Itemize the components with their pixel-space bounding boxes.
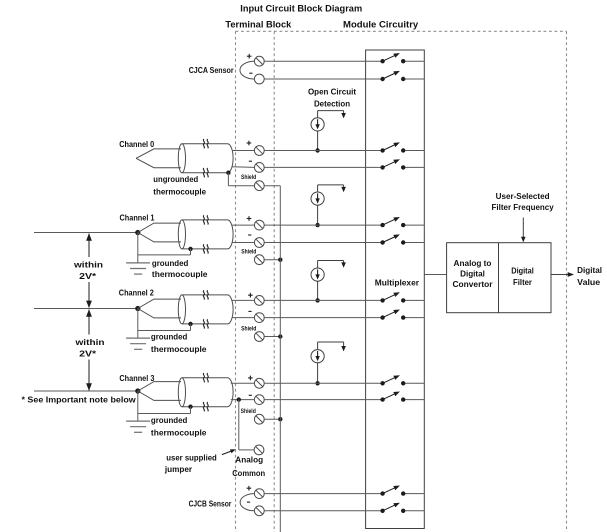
svg-text:Multiplexer: Multiplexer — [375, 279, 419, 288]
channel 1 plus sign — [247, 216, 252, 221]
ground channel 2 — [126, 338, 150, 349]
channel 2 minus sign — [248, 310, 251, 312]
node TC0 shield tap — [226, 171, 230, 175]
svg-text:Analog to: Analog to — [454, 259, 492, 268]
switch S5 (CH1+) with wire — [264, 217, 424, 227]
node CH2 shield bus junction — [278, 334, 282, 338]
wire channel 2 ground stem — [137, 309, 139, 339]
switch S1 (CJCA+) with wire — [264, 53, 424, 63]
shield label ch2 — [241, 327, 256, 333]
node TC2 ground tap — [188, 322, 192, 326]
node CH3 shield bus junction — [278, 417, 282, 421]
ground channel 1 — [126, 263, 150, 274]
svg-text:ungrounded: ungrounded — [153, 175, 198, 184]
wire TC3 ground tap — [138, 407, 191, 414]
terminal CH1+ — [254, 220, 264, 230]
svg-text:Channel 3: Channel 3 — [119, 374, 155, 383]
multiplexer U1 box — [366, 50, 425, 529]
user-selected filter frequency label — [492, 192, 555, 212]
wire TC2 ground tap — [138, 324, 191, 331]
svg-text:Analog: Analog — [235, 456, 263, 465]
node channel 1 junction — [135, 230, 140, 235]
terminal CH2- — [254, 313, 264, 323]
node channel 2 junction — [135, 306, 140, 311]
CJCB minus sign — [247, 501, 250, 503]
terminal CJCA+ — [254, 56, 264, 66]
terminal CJCA- — [254, 74, 264, 84]
wire channel 1 input — [34, 232, 138, 234]
terminal CH2+ — [254, 296, 264, 306]
channel 2 label — [119, 289, 155, 298]
terminal CH0+ — [254, 146, 264, 156]
terminal CH2 shield — [254, 332, 264, 342]
svg-text:within: within — [73, 261, 103, 270]
switch S7 (CH2+) with wire — [264, 292, 424, 302]
module circuitry top dashed border — [236, 30, 567, 32]
wire TC1 ground tap — [138, 249, 191, 255]
wire CH1 shield to bus — [264, 259, 280, 261]
within 2V measure line A — [86, 233, 92, 308]
node TC3 ground tap — [188, 405, 192, 409]
svg-text:Channel 2: Channel 2 — [119, 289, 155, 298]
svg-text:CJCB Sensor: CJCB Sensor — [189, 499, 232, 508]
svg-text:Value: Value — [577, 278, 601, 287]
svg-text:thermocouple: thermocouple — [153, 187, 206, 196]
jumper callout arrow — [222, 449, 236, 454]
channel 0 plus sign — [247, 141, 252, 146]
terminal CH1 shield — [254, 255, 264, 265]
svg-text:Module Circuitry: Module Circuitry — [343, 19, 419, 30]
wire user supplied jumper — [239, 400, 254, 450]
terminal block label — [225, 19, 292, 30]
open circuit detection label — [308, 87, 356, 108]
switch S9 (CH3+) with wire — [264, 375, 424, 385]
svg-text:Terminal Block: Terminal Block — [225, 19, 292, 30]
wire TC2- to terminal — [232, 317, 254, 319]
terminal analog common — [254, 445, 264, 455]
wire channel 3 input — [34, 390, 138, 392]
wire TC3- to terminal — [231, 399, 255, 401]
thermocouple TC0 (ungrounded) — [136, 139, 233, 177]
svg-text:Filter Frequency: Filter Frequency — [492, 203, 555, 212]
svg-text:Digital: Digital — [511, 267, 534, 276]
svg-text:Common: Common — [232, 469, 265, 478]
wire TC0 shield to terminal — [228, 173, 254, 186]
see important note label — [22, 396, 137, 405]
svg-text:Shield: Shield — [241, 409, 256, 415]
svg-text:Digital: Digital — [577, 266, 602, 275]
terminal block right dashed border — [273, 31, 275, 532]
terminal CH0 shield — [254, 181, 264, 191]
svg-text:Shield: Shield — [241, 249, 256, 255]
svg-text:Digital: Digital — [460, 270, 485, 279]
module circuitry right dashed border — [566, 31, 568, 532]
terminal CH3- — [254, 395, 264, 405]
wire TC0- to terminal — [232, 166, 255, 169]
svg-text:Shield: Shield — [241, 327, 256, 333]
svg-text:Channel 0: Channel 0 — [119, 140, 155, 149]
wire TC2+ to terminal — [232, 299, 254, 301]
grounded thermocouple label ch3 — [151, 416, 207, 438]
CJCA sensor label — [189, 66, 234, 75]
terminal CH0- — [254, 163, 264, 173]
digital filter label — [511, 267, 534, 287]
module circuitry label — [343, 19, 419, 30]
svg-text:Convertor: Convertor — [453, 280, 493, 289]
analog to digital convertor label — [453, 259, 493, 289]
channel 2 plus sign — [248, 293, 253, 298]
terminal CJCB- — [254, 506, 264, 516]
svg-text:CJCA Sensor: CJCA Sensor — [189, 66, 234, 75]
channel 0 minus sign — [249, 160, 252, 162]
thermocouple TC1 (grounded) — [138, 215, 233, 253]
current source I3 — [311, 342, 346, 385]
wire shield bus — [279, 186, 281, 532]
channel 3 minus sign — [249, 394, 252, 396]
switch S3 (CH0+) with wire — [264, 142, 424, 152]
node channel 3 junction — [135, 388, 140, 393]
svg-text:2V*: 2V* — [79, 350, 97, 359]
svg-text:Detection: Detection — [314, 99, 350, 108]
svg-text:* See Important note below: * See Important note below — [22, 396, 137, 405]
thermocouple TC3 (grounded) — [138, 373, 233, 411]
wire channel 2 input — [34, 308, 138, 310]
svg-text:Input Circuit Block Diagram: Input Circuit Block Diagram — [240, 3, 362, 14]
terminal block left dashed border — [235, 31, 237, 532]
grounded thermocouple label ch1 — [152, 259, 208, 279]
terminal CH3+ — [254, 378, 264, 388]
svg-text:thermocouple: thermocouple — [152, 270, 208, 279]
analog common label — [232, 456, 265, 478]
grounded thermocouple label ch2 — [151, 333, 207, 354]
within 2V label A — [73, 261, 103, 281]
switch S8 (CH2-) with wire — [264, 310, 424, 320]
CJCB sensor label — [189, 499, 232, 508]
channel 1 label — [120, 213, 156, 222]
current source I1 — [311, 185, 346, 227]
CJCA sensor arc — [240, 61, 254, 79]
svg-text:jumper: jumper — [164, 465, 192, 474]
wire mux to ADC — [424, 274, 446, 276]
filter frequency arrow — [521, 218, 526, 243]
switch S4 (CH0-) with wire — [264, 159, 424, 169]
svg-text:grounded: grounded — [151, 333, 188, 342]
switch S12 (CJCB-) with wire — [264, 503, 424, 513]
svg-text:grounded: grounded — [151, 416, 188, 425]
svg-text:Open Circuit: Open Circuit — [308, 87, 356, 96]
svg-text:Filter: Filter — [513, 278, 532, 287]
svg-text:thermocouple: thermocouple — [151, 345, 207, 354]
current source I0 (open circuit detection) — [311, 111, 346, 153]
within 2V measure line B — [86, 309, 92, 390]
svg-text:Channel 1: Channel 1 — [120, 213, 156, 222]
shield label ch1 — [241, 249, 256, 255]
node CH1 shield bus junction — [278, 258, 282, 262]
wire digital value output — [551, 272, 574, 277]
terminal CH1- — [254, 238, 264, 248]
svg-text:Shield: Shield — [241, 175, 256, 181]
user supplied jumper label — [164, 454, 217, 474]
title label — [240, 3, 362, 14]
multiplexer label — [375, 279, 419, 288]
wire CH0 shield to bus — [264, 185, 280, 187]
switch S10 (CH3-) with wire — [264, 392, 424, 402]
svg-text:2V*: 2V* — [79, 272, 97, 281]
CJCB plus sign — [247, 486, 252, 491]
wire TC0+ to terminal — [232, 150, 254, 152]
wire CH3 shield to bus — [264, 418, 280, 420]
wire TC1- to terminal — [232, 242, 254, 244]
node jumper tap — [237, 397, 241, 401]
svg-text:within: within — [74, 338, 104, 347]
ground channel 3 — [126, 421, 150, 432]
terminal CH3 shield — [254, 414, 264, 424]
channel 1 minus sign — [248, 234, 251, 236]
wire channel 1 ground stem — [137, 233, 139, 263]
CJCA plus sign — [247, 54, 252, 59]
CJCB sensor arc — [240, 494, 254, 511]
CJCA minus sign — [249, 72, 252, 74]
ungrounded thermocouple label — [153, 175, 206, 196]
wire channel 3 ground stem — [137, 391, 139, 421]
switch S6 (CH1-) with wire — [264, 234, 424, 244]
thermocouple TC2 (grounded) — [138, 290, 233, 328]
svg-text:User-Selected: User-Selected — [496, 192, 550, 201]
analog to digital convertor U2 box — [447, 243, 551, 313]
current source I2 — [311, 261, 346, 303]
svg-text:user supplied: user supplied — [166, 454, 217, 463]
svg-text:grounded: grounded — [152, 259, 189, 268]
svg-text:thermocouple: thermocouple — [151, 429, 207, 438]
shield label ch3 — [241, 409, 256, 415]
wire TC3+ to terminal — [231, 382, 255, 384]
node TC1 ground tap — [188, 247, 192, 251]
switch S11 (CJCB+) with wire — [264, 486, 424, 496]
channel 3 plus sign — [248, 376, 253, 381]
channel 3 label — [119, 374, 155, 383]
shield label ch0 — [241, 175, 256, 181]
wire CH2 shield to bus — [264, 336, 280, 338]
wire TC1+ to terminal — [232, 224, 254, 226]
within 2V label B — [74, 338, 104, 358]
channel 0 label — [119, 140, 155, 149]
digital value label — [577, 266, 602, 287]
terminal CJCB+ — [254, 489, 264, 499]
switch S2 (CJCA-) with wire — [264, 71, 424, 81]
